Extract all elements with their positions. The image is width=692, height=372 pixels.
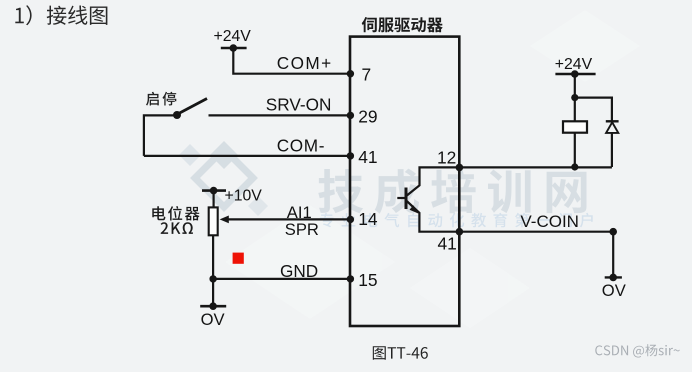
svg-text:+10V: +10V [225, 187, 263, 204]
svg-text:OV: OV [602, 281, 626, 300]
svg-text:GND: GND [280, 261, 318, 281]
wire pin 12 to relay [459, 166, 612, 168]
pin 15 [347, 270, 378, 290]
wire GND (to pin 15) [209, 275, 350, 282]
servo driver box 伺服驱动器 [350, 37, 459, 326]
pin 12 (node) [437, 147, 463, 171]
svg-text:V-COIN: V-COIN [520, 212, 579, 231]
pin 41 (V-COIN node) [438, 228, 464, 253]
diode D1 (flyback) [575, 98, 619, 167]
svg-text:SPR: SPR [285, 220, 319, 239]
svg-text:12: 12 [437, 147, 456, 167]
relay coil K1 [563, 98, 587, 171]
wire SRV-ON (switch to pin 29) [209, 114, 351, 116]
wire potentiometer to GND [212, 235, 214, 279]
ground OV (left) [200, 279, 226, 329]
svg-text:41: 41 [438, 233, 457, 253]
svg-text:29: 29 [358, 107, 377, 127]
svg-text:41: 41 [358, 147, 377, 167]
svg-text:14: 14 [358, 209, 378, 229]
svg-text:COM+: COM+ [277, 53, 333, 73]
wire +10V to potentiometer [213, 191, 215, 208]
svg-text:COM-: COM- [277, 135, 325, 155]
svg-text:OV: OV [201, 310, 225, 329]
pin 29 [347, 107, 378, 127]
wire V-COIN [459, 231, 613, 233]
+24V supply (left) [214, 28, 252, 52]
CSDN watermark [595, 344, 680, 357]
wire COM- (to pin 41) [144, 155, 350, 157]
red marker [233, 253, 244, 264]
svg-text:15: 15 [358, 270, 377, 290]
svg-text:AI1: AI1 [287, 203, 312, 222]
ground OV (right) [602, 228, 626, 300]
caption 图TT-46 [373, 346, 428, 360]
+10V supply [202, 187, 262, 205]
switch S 启停 [146, 92, 207, 119]
wire +24V to COM+ (pin 7) [233, 48, 350, 74]
transistor Q1 (open-collector output) [397, 167, 459, 231]
label 伺服驱动器 [362, 17, 443, 32]
title 接线图 [15, 5, 107, 25]
svg-text:7: 7 [362, 65, 372, 85]
watermark [179, 10, 640, 328]
wire AI1/SPR (pin 14 to wiper) [220, 216, 350, 224]
pin 14 [347, 209, 378, 229]
svg-text:+24V: +24V [214, 28, 252, 45]
+24V supply (right) [555, 56, 596, 78]
svg-text:+24V: +24V [555, 56, 593, 73]
pin 41 [347, 147, 378, 167]
wire switch to COM- [144, 115, 177, 155]
svg-text:SRV-ON: SRV-ON [266, 94, 332, 114]
pin 7 [347, 65, 371, 85]
potentiometer RP 2KΩ [152, 206, 217, 235]
wire +24V down to branch node [571, 74, 578, 101]
